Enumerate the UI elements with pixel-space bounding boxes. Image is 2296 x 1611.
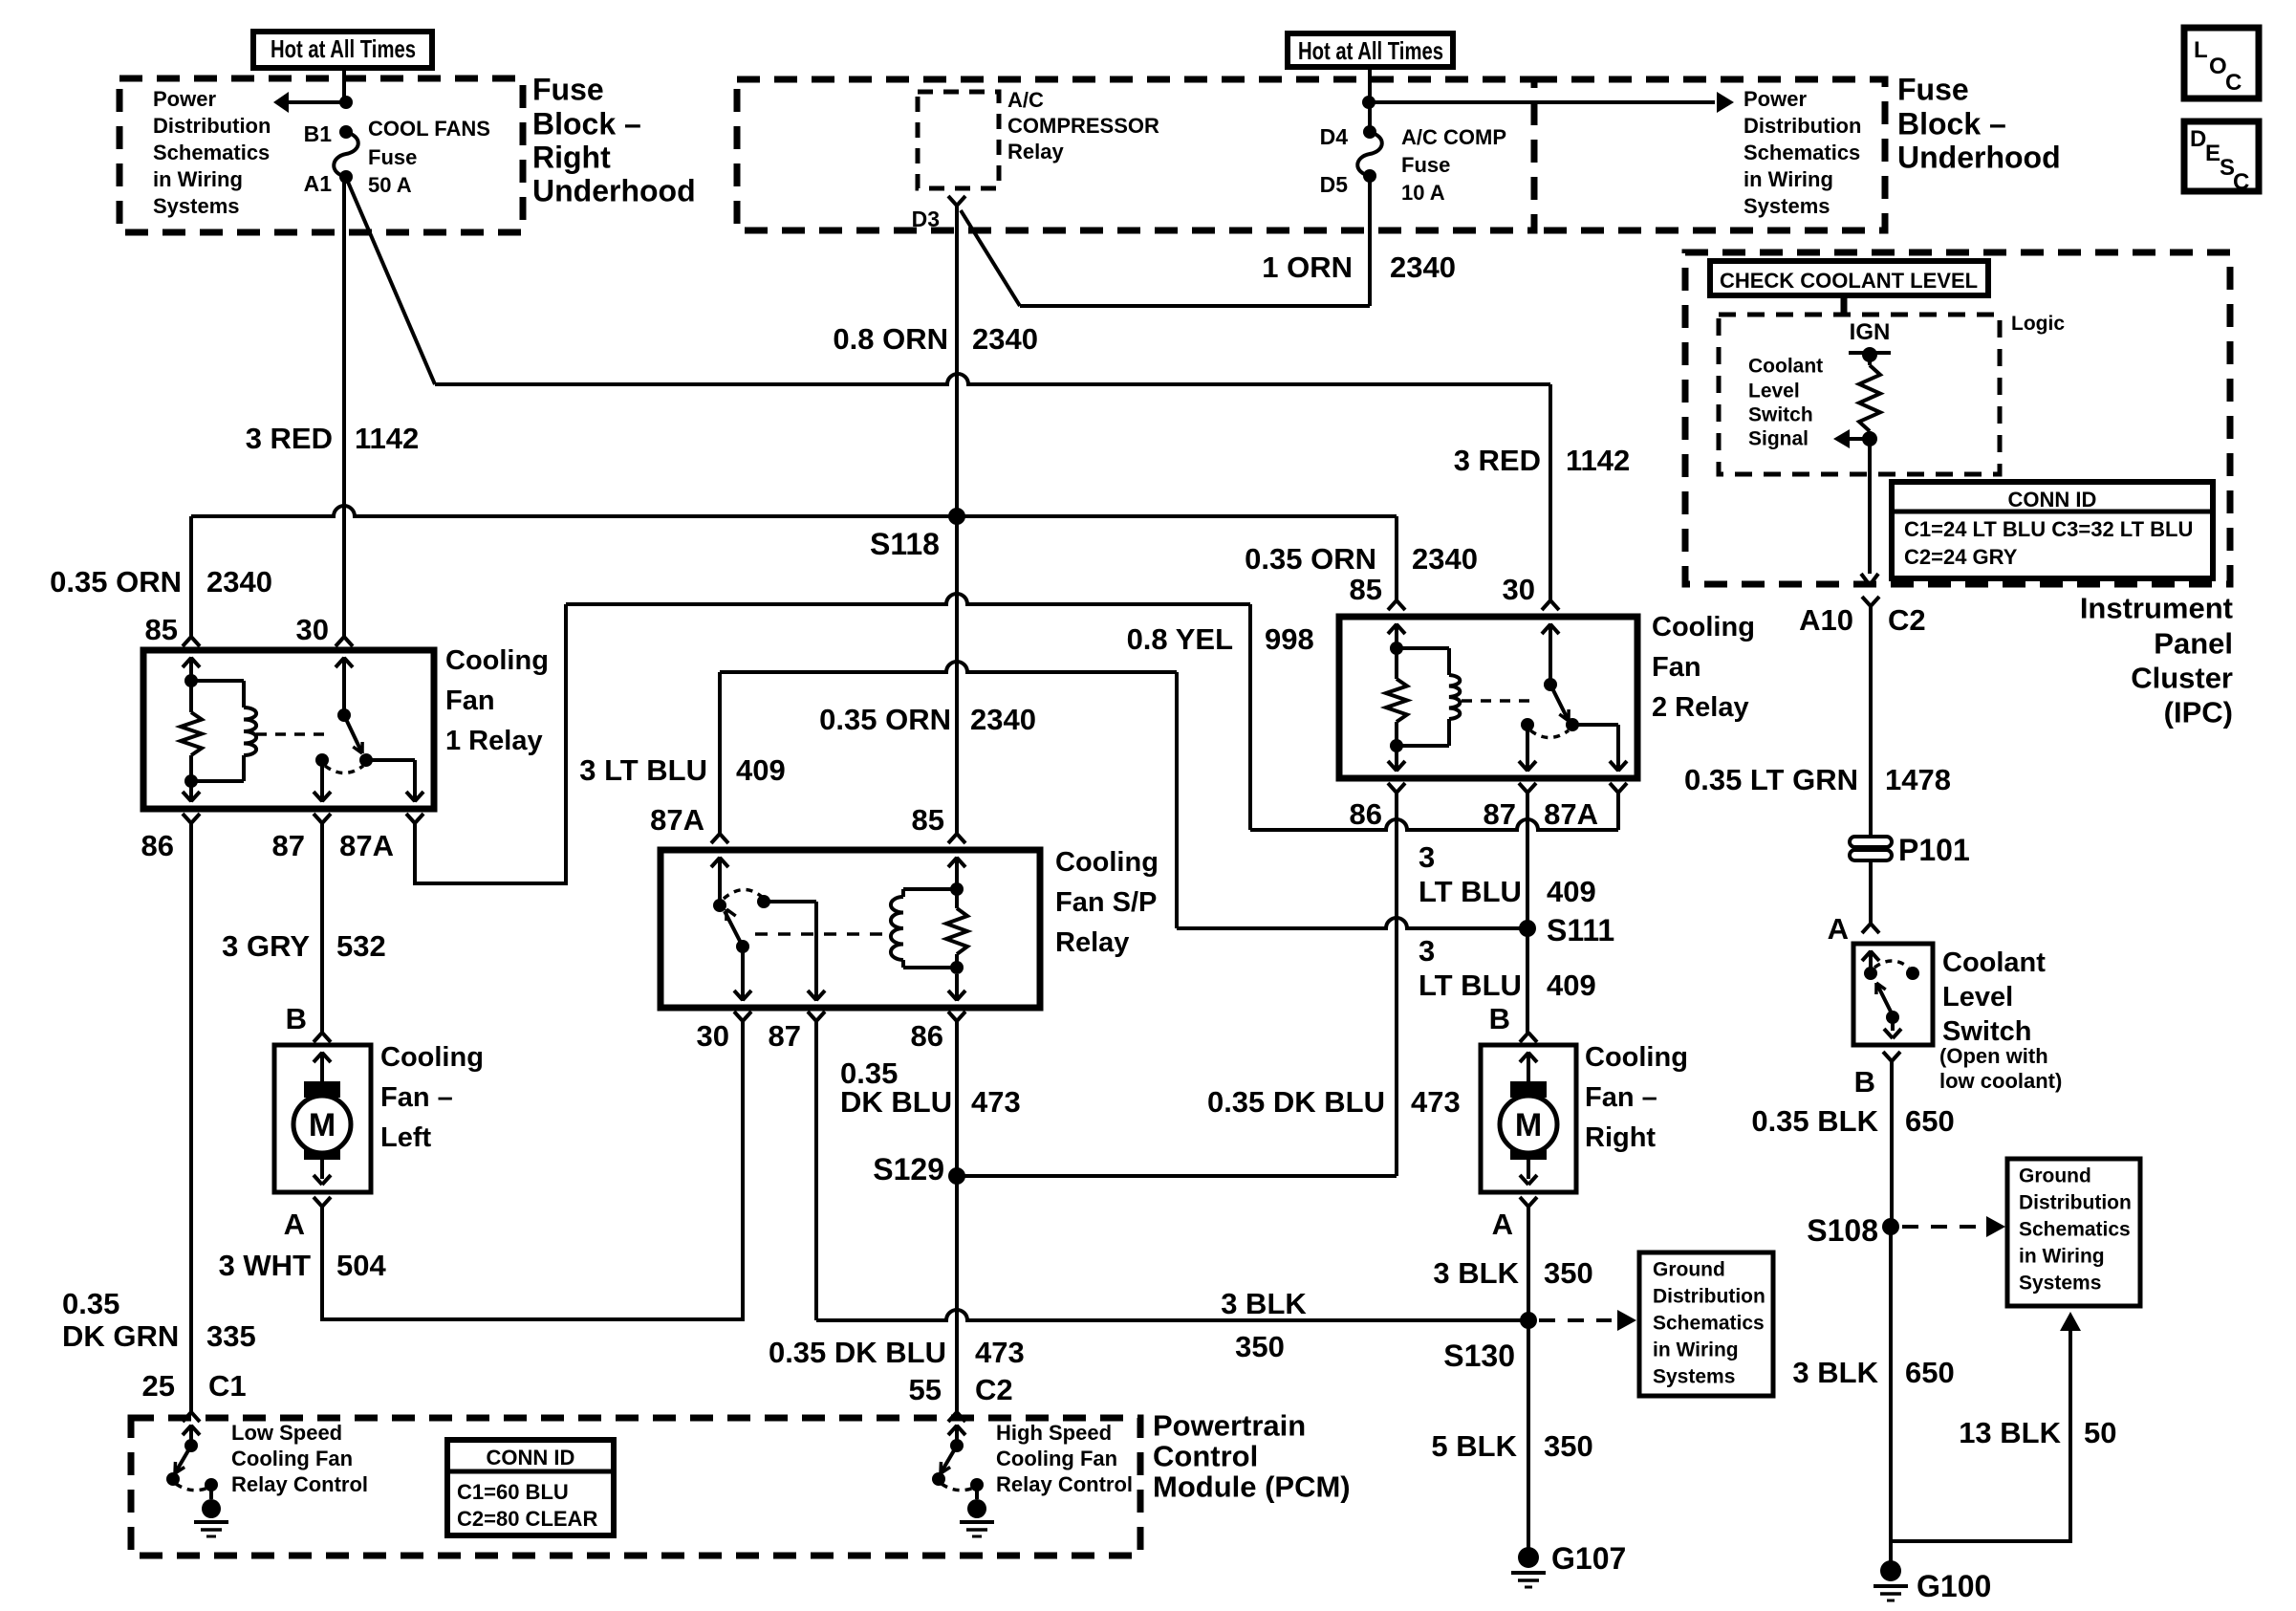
svg-text:87: 87 [1484,797,1516,831]
relay K5 Cooling Fan S/P Relay box [661,850,1040,1008]
svg-text:Instrument: Instrument [2080,592,2233,625]
svg-text:2340: 2340 [970,703,1036,736]
svg-text:409: 409 [1547,875,1596,908]
wire: battery feed to A/C fuse [1362,67,1375,132]
resistor R1 coolant level pullup [1859,355,1880,439]
svg-text:2340: 2340 [1412,542,1478,576]
wire: 0.35 ORN 2340 to fan2 relay 85 [1395,516,1398,600]
svg-text:Schematics: Schematics [1653,1312,1765,1334]
svg-text:S108: S108 [1807,1213,1878,1248]
svg-text:0.35 BLK: 0.35 BLK [1751,1104,1878,1138]
svg-text:IGN: IGN [1850,319,1891,345]
svg-text:Block –: Block – [532,106,641,141]
svg-text:0.35 ORN: 0.35 ORN [819,703,951,736]
svg-text:3 LT BLU: 3 LT BLU [579,753,707,787]
note box: Ground Distribution (left) [1639,1252,1773,1396]
pin 87A fan1 [339,814,423,862]
svg-text:Relay: Relay [1055,927,1129,958]
svg-text:B: B [286,1002,307,1035]
pin B coolant switch [1854,1052,1900,1099]
svg-text:C1=24 LT BLU C3=32 LT BLU: C1=24 LT BLU C3=32 LT BLU [1904,517,2193,541]
svg-text:Distribution: Distribution [153,114,271,138]
label: 3 BLK 350 (fan right) [1433,1256,1592,1290]
relay K3 Cooling Fan 1 Relay box [143,650,434,809]
arrow: to power distribution (left) [273,92,353,113]
svg-text:Fuse: Fuse [368,145,417,169]
svg-text:0.35 DK BLU: 0.35 DK BLU [1207,1085,1385,1119]
svg-text:1142: 1142 [1566,444,1630,477]
node S111 [1519,913,1614,947]
arrow: to power distribution (right) [1717,92,1734,113]
svg-text:Level: Level [1942,982,2013,1012]
label: 0.35 ORN 2340 (S/P 85) [819,703,1036,736]
svg-text:Logic: Logic [2011,313,2065,335]
label: Cooling Fan 2 Relay [1652,612,1755,723]
coolant switch contacts [1862,950,1919,1038]
wire: 3 RED 1142 branch diagonal [347,180,435,384]
svg-text:2340: 2340 [206,565,272,599]
relay K2 A/C compressor relay (dashed box) [918,92,999,188]
module: Powertrain Control Module (dashed box) [131,1418,1140,1556]
wire: 3 BLK 650 to G100 [1889,1227,1893,1571]
svg-text:85: 85 [145,613,178,646]
svg-text:350: 350 [1235,1330,1285,1363]
svg-text:Ground: Ground [1653,1258,1725,1280]
fuse block - right underhood (dashed box) [119,78,523,232]
svg-text:Fan –: Fan – [1585,1082,1657,1113]
legend box DESC [2184,121,2259,195]
svg-text:85: 85 [1350,573,1382,606]
label: 0.35 DK BLU 473 (PCM) [769,1336,1025,1369]
svg-text:C2=80 CLEAR: C2=80 CLEAR [457,1507,597,1531]
node S130 [1443,1312,1537,1373]
wire: 3 WHT 504 [322,1021,743,1319]
svg-text:M: M [309,1107,336,1143]
svg-text:0.35 LT GRN: 0.35 LT GRN [1684,763,1858,796]
svg-text:S129: S129 [873,1152,944,1186]
svg-text:Relay: Relay [1007,140,1064,163]
pin 30 fan2 [1503,573,1559,610]
fan1 relay coil+resistor [181,657,256,802]
svg-text:0.8 YEL: 0.8 YEL [1127,622,1233,656]
svg-text:3 GRY: 3 GRY [222,929,310,963]
svg-text:Relay Control: Relay Control [231,1472,368,1496]
svg-text:87A: 87A [339,829,394,862]
svg-text:D4: D4 [1320,124,1349,149]
wire: 3 GRY 532 fan1 87 to fan left [320,823,324,1033]
svg-text:5 BLK: 5 BLK [1431,1429,1517,1463]
node A1 [304,170,353,196]
svg-text:Fan: Fan [445,686,495,716]
pin A10 C2 IPC [1799,597,1926,637]
connector P101 [1850,833,1970,867]
svg-text:CONN ID: CONN ID [2008,488,2097,512]
svg-text:85: 85 [912,803,944,837]
label: 0.35 ORN 2340 (fan1 85) [50,565,272,599]
svg-text:G107: G107 [1551,1541,1626,1576]
svg-text:650: 650 [1905,1104,1955,1138]
svg-text:A1: A1 [304,171,333,196]
svg-text:2 Relay: 2 Relay [1652,692,1749,723]
svg-text:Distribution: Distribution [2019,1191,2132,1213]
svg-text:50 A: 50 A [368,173,412,197]
svg-text:0.35 DK BLU: 0.35 DK BLU [769,1336,946,1369]
svg-text:Module (PCM): Module (PCM) [1153,1470,1351,1504]
svg-text:473: 473 [971,1085,1021,1119]
logic block (dashed box) [1719,313,2065,474]
svg-text:Left: Left [380,1122,432,1153]
pin 86 fan2 [1350,783,1405,831]
wire: 13 BLK 50 ground branch [1891,1312,2081,1541]
svg-text:Cooling Fan: Cooling Fan [996,1447,1117,1470]
ground G100 [1874,1560,1991,1603]
svg-text:Low Speed: Low Speed [231,1421,342,1445]
switch: high speed cooling fan relay control [932,1425,994,1536]
svg-text:Fan: Fan [1652,652,1701,683]
fan2 relay actuation (dashed) [1462,699,1533,703]
pin 85 fan1 [145,613,200,646]
pin 25 C1 PCM [142,1369,247,1422]
svg-text:25: 25 [142,1369,175,1403]
svg-text:3: 3 [1419,840,1435,874]
svg-text:C2=24 GRY: C2=24 GRY [1904,545,2018,569]
S/P relay coil+resistor [891,857,967,1001]
svg-text:Coolant: Coolant [1942,947,2046,978]
label: 3 GRY 532 [222,929,386,963]
svg-text:B1: B1 [304,121,333,146]
svg-text:3 RED: 3 RED [246,422,333,455]
pin 87 fan1 [272,814,331,862]
svg-text:30: 30 [1503,573,1535,606]
fan2 relay switch [1519,623,1627,772]
node B1 [304,121,353,146]
label: Cooling Fan 1 Relay [445,645,549,756]
svg-text:Fuse: Fuse [1401,153,1450,177]
wire: 0.8 YEL 998 lower run [1250,819,1618,830]
fuse block - underhood right section (dashed box) [1534,79,1885,230]
label: 3 BLK 650 [1792,1356,1954,1389]
svg-text:Hot at All Times: Hot at All Times [1298,36,1443,65]
ground G107 [1511,1541,1626,1587]
svg-text:335: 335 [206,1319,256,1353]
svg-text:Cooling: Cooling [445,645,549,676]
svg-text:Underhood: Underhood [1897,140,2061,174]
svg-text:86: 86 [1350,797,1382,831]
pin B fan left [286,1002,331,1042]
svg-text:Cluster: Cluster [2131,662,2233,695]
label: Low Speed Cooling Fan Relay Control [231,1421,368,1496]
svg-text:in Wiring: in Wiring [1744,167,1833,191]
switch: coolant level switch box [1853,944,1933,1045]
svg-text:504: 504 [336,1249,386,1282]
svg-text:87A: 87A [1544,797,1598,831]
pin A fan left [284,1197,331,1241]
svg-text:Right: Right [1585,1122,1656,1153]
wire: 5 BLK 350 to G107 [1527,1320,1530,1557]
indicator box: CHECK COOLANT LEVEL [1710,261,1988,295]
svg-text:Fan –: Fan – [380,1082,453,1113]
svg-text:3: 3 [1419,934,1435,968]
conn id box (IPC) [1892,482,2213,578]
wire: 0.8 ORN 2340 from D3 [955,206,959,516]
label: High Speed Cooling Fan Relay Control [996,1421,1133,1496]
label: Fuse Block - Right Underhood [532,72,696,207]
wire: 3 BLK 350 fan right A [1527,1207,1530,1320]
svg-text:CONN ID: CONN ID [487,1446,575,1469]
wire: 3 RED 1142 left drop [342,177,346,637]
svg-text:Systems: Systems [2019,1272,2101,1294]
fan1 relay switch [314,657,423,802]
svg-text:Powertrain: Powertrain [1153,1409,1306,1443]
label box: Hot at All Times (middle) [1288,33,1453,67]
svg-text:409: 409 [736,753,786,787]
wire: 3 LT BLU 409 drop to S111 [1177,672,1527,928]
svg-text:0.8 ORN: 0.8 ORN [833,322,948,356]
svg-text:3 RED: 3 RED [1454,444,1541,477]
svg-text:Schematics: Schematics [153,141,270,164]
pin 85 S/P [912,803,965,843]
svg-text:Fuse: Fuse [532,72,604,106]
pin 30 fan1 [296,613,353,646]
pin 87 S/P [769,1012,825,1053]
svg-text:Cooling: Cooling [1055,847,1159,878]
svg-text:LT BLU: LT BLU [1419,875,1522,908]
svg-text:2340: 2340 [1390,250,1456,284]
wire: indicator stub [1841,295,1848,315]
svg-text:in Wiring: in Wiring [153,167,243,191]
wire: 0.35 LT GRN 1478 [1869,606,1873,837]
svg-text:Switch: Switch [1748,403,1813,425]
pin 86 S/P [911,1012,965,1053]
motor M1 Cooling Fan - Left [274,1045,371,1192]
node S118 [191,506,1397,561]
svg-text:0.35: 0.35 [62,1287,119,1320]
wire: 0.35 DK BLU 473 S/P 86 drop [955,1021,959,1412]
svg-text:87: 87 [272,829,305,862]
label: 0.35 LT GRN 1478 [1684,763,1951,796]
svg-text:(IPC): (IPC) [2164,696,2233,729]
svg-text:S111: S111 [1547,913,1614,947]
node IGN [1849,319,1891,362]
wire: 0.35 DK GRN 335 [189,823,193,1412]
svg-text:(Open with: (Open with [1939,1044,2048,1068]
label: 0.35 ORN 2340 (fan2 85) [1245,542,1478,576]
svg-text:C: C [2233,169,2249,195]
S/P relay actuation (dashed) [755,932,891,936]
svg-text:Schematics: Schematics [2019,1218,2131,1240]
svg-text:M: M [1515,1107,1542,1143]
relay K4 Cooling Fan 2 Relay box [1339,617,1637,778]
wire: 1 ORN 2340 from D5 [961,176,1370,306]
label: Powertrain Control Module (PCM) [1153,1409,1351,1504]
label: 0.8 ORN 2340 [833,322,1038,356]
pin B fan right [1489,1002,1537,1042]
label: 0.8 YEL 998 [1127,622,1314,656]
svg-text:Cooling: Cooling [1652,612,1755,642]
svg-text:E: E [2205,141,2220,166]
svg-text:S118: S118 [870,527,940,561]
label: Cooling Fan - Right [1585,1042,1688,1153]
svg-text:3 BLK: 3 BLK [1221,1287,1307,1320]
pin 85 fan2 [1350,573,1405,610]
svg-text:C1: C1 [208,1369,247,1403]
svg-text:Underhood: Underhood [532,173,696,207]
wire: 0.35 DK BLU 473 fan2 86 drop [958,793,1397,1176]
wire: 3 LT BLU 409 riser [718,672,722,834]
svg-text:650: 650 [1905,1356,1955,1389]
svg-text:L: L [2194,37,2208,63]
pin A coolant switch [1828,912,1879,946]
node D5 [1320,169,1376,197]
label: A/C COMPRESSOR Relay [1007,88,1159,163]
label: 3 BLK 350 (run) [1221,1287,1307,1363]
module: Instrument Panel Cluster (dashed box) [1685,252,2230,584]
label: Fuse Block - Underhood [1897,72,2061,174]
svg-text:1 Relay: 1 Relay [445,726,543,756]
svg-text:Panel: Panel [2154,627,2233,661]
svg-text:2340: 2340 [972,322,1038,356]
svg-text:350: 350 [1544,1429,1593,1463]
svg-text:30: 30 [296,613,329,646]
label: 1 ORN 2340 [1262,250,1456,284]
wire: S108 dashed link [1902,1216,2005,1237]
wire: battery feed into fuse block [342,68,346,102]
label: 0.35 DK BLU 473 (fan2 86) [1207,1085,1461,1119]
wire: 3 LT BLU 409 run [720,662,1177,672]
svg-text:Control: Control [1153,1440,1258,1473]
wire: 3 LT BLU 409 fan2 87 to fan right [1526,793,1529,1033]
svg-text:CHECK COOLANT LEVEL: CHECK COOLANT LEVEL [1720,269,1978,293]
pin 30 S/P [697,1012,751,1053]
svg-text:1 ORN: 1 ORN [1262,250,1353,284]
svg-text:3 BLK: 3 BLK [1792,1356,1878,1389]
svg-text:87A: 87A [650,803,704,837]
svg-text:3 WHT: 3 WHT [219,1249,312,1282]
svg-text:A/C: A/C [1007,88,1044,112]
svg-text:Systems: Systems [1653,1365,1735,1387]
wire: 0.35 BLK 650 [1890,1061,1894,1227]
label: 3 LT BLU 409 (above S111) [1419,840,1596,908]
svg-text:1142: 1142 [355,422,419,455]
svg-text:Distribution: Distribution [1744,114,1861,138]
svg-text:A: A [284,1208,305,1241]
wire: 0.35 ORN 2340 to fan1 relay 85 [189,516,193,637]
label: Coolant Level Switch Signal [1748,355,1823,449]
svg-text:Fuse: Fuse [1897,72,1969,106]
svg-text:Power: Power [153,87,216,111]
label box: Hot at All Times (left) [253,32,432,68]
label: 0.35 DK GRN 335 [62,1287,256,1353]
svg-text:3 BLK: 3 BLK [1433,1256,1519,1290]
svg-text:350: 350 [1544,1256,1593,1290]
label: 3 LT BLU 409 (below S111) [1419,934,1596,1002]
svg-text:Power: Power [1744,87,1807,111]
svg-text:B: B [1489,1002,1510,1035]
svg-text:55: 55 [909,1373,942,1406]
svg-text:Fan S/P: Fan S/P [1055,887,1157,918]
svg-text:Ground: Ground [2019,1165,2091,1186]
conn id box (PCM) [447,1440,614,1535]
svg-text:C2: C2 [975,1373,1013,1406]
wire: fuse feed to power distribution (right) [1370,100,1715,104]
svg-text:DK GRN: DK GRN [62,1319,179,1353]
note box: Ground Distribution (right) [2007,1159,2140,1306]
node S129 [873,1152,965,1186]
svg-text:A: A [1492,1208,1513,1241]
wire: riser to fan2 87A [1616,793,1620,830]
svg-text:low coolant): low coolant) [1939,1069,2062,1093]
svg-text:Switch: Switch [1942,1016,2031,1047]
pin 87 fan2 [1484,783,1536,831]
wire: 0.35 ORN 2340 to S/P relay 85 [955,516,959,834]
svg-text:Distribution: Distribution [1653,1285,1765,1307]
note: Power Distribution Schematics in Wiring Systems (left) [153,87,271,218]
pin 87A S/P [650,803,728,843]
svg-text:D: D [2190,126,2206,152]
switch: low speed cooling fan relay control [166,1425,228,1536]
fuse block - underhood (dashed box) [737,79,1534,230]
svg-text:13 BLK: 13 BLK [1959,1416,2061,1449]
svg-text:Relay Control: Relay Control [996,1472,1133,1496]
svg-text:in Wiring: in Wiring [1653,1339,1739,1361]
wire: 3 RED 1142 right drop [1549,384,1552,600]
svg-text:473: 473 [975,1336,1025,1369]
svg-text:87: 87 [769,1019,801,1053]
svg-text:B: B [1854,1065,1875,1099]
label: 0.35 DK BLU 473 (S/P 86) [840,1056,1021,1119]
svg-text:1478: 1478 [1885,763,1951,796]
svg-text:409: 409 [1547,969,1596,1002]
svg-text:473: 473 [1411,1085,1461,1119]
svg-text:Cooling: Cooling [1585,1042,1688,1073]
svg-text:Level: Level [1748,380,1800,402]
node S108 [1807,1213,1899,1248]
node: coolant level switch signal [1833,429,1877,448]
label: 3 RED 1142 (right) [1454,444,1631,477]
svg-text:S130: S130 [1443,1339,1515,1373]
svg-text:Coolant: Coolant [1748,355,1823,377]
svg-text:50: 50 [2084,1416,2116,1449]
fuse F2 A/C COMP 10A [1357,125,1506,205]
svg-text:0.35 ORN: 0.35 ORN [50,565,182,599]
svg-text:in Wiring: in Wiring [2019,1245,2105,1267]
svg-text:Block –: Block – [1897,106,2006,141]
svg-text:A10: A10 [1799,603,1853,637]
svg-text:Systems: Systems [1744,194,1830,218]
svg-text:532: 532 [336,929,386,963]
svg-text:LT BLU: LT BLU [1419,969,1522,1002]
svg-text:C: C [2225,70,2242,96]
pin 86 fan1 [141,814,200,862]
svg-text:998: 998 [1265,622,1314,656]
svg-text:D5: D5 [1320,172,1349,197]
svg-text:10 A: 10 A [1401,181,1445,205]
wire: P101 to coolant switch [1869,860,1873,924]
label: Instrument Panel Cluster (IPC) [2080,592,2233,729]
pin A fan right [1492,1197,1537,1241]
svg-text:Schematics: Schematics [1744,141,1860,164]
svg-text:30: 30 [697,1019,729,1053]
svg-text:Signal: Signal [1748,427,1809,449]
svg-text:A/C COMP: A/C COMP [1401,125,1506,149]
svg-text:High Speed: High Speed [996,1421,1112,1445]
svg-text:Cooling: Cooling [380,1042,484,1073]
label: 3 WHT 504 [219,1249,387,1282]
wire: 3 RED 1142 cross run [435,374,1550,384]
fuse F1 COOL FANS 50A [334,117,490,197]
svg-text:O: O [2209,54,2227,79]
fan2 relay coil+resistor [1386,623,1460,772]
